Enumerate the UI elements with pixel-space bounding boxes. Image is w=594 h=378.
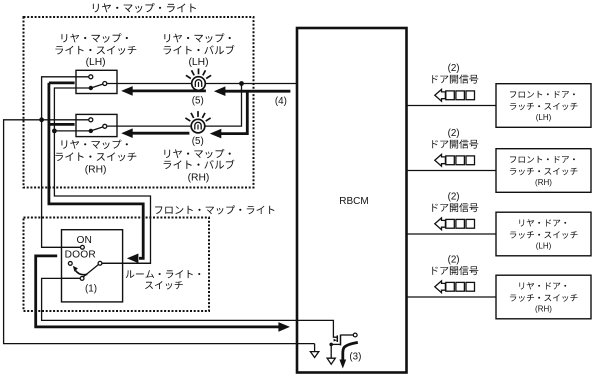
switch S3 lever <box>83 264 99 277</box>
svg-text:(LH): (LH) <box>86 57 106 68</box>
junction: ground bus node <box>39 117 44 122</box>
flow line: switches down to room light switch <box>49 83 143 258</box>
label: door open signal group 1 <box>432 75 478 84</box>
svg-text:(LH): (LH) <box>188 57 208 68</box>
switch S2 lever <box>91 126 105 131</box>
svg-text:(3): (3) <box>349 352 361 363</box>
label: room light switch <box>126 270 201 278</box>
switch S2: rear map light switch (RH) body <box>76 114 117 136</box>
lamp L2: rear map light bulb (RH) <box>191 119 205 133</box>
label: rear map light switch (RH) <box>62 140 128 149</box>
svg-text:(5): (5) <box>192 136 204 147</box>
svg-text:(RH): (RH) <box>535 178 552 187</box>
ground G1: body ground <box>310 352 318 358</box>
switch S1 common contact <box>89 86 93 90</box>
flow line: bulb RH to switch RH <box>133 132 190 135</box>
transistor Q1 source lead <box>331 343 340 345</box>
flow arrow into bulb RH <box>210 129 222 139</box>
connector symbol group 2 <box>435 154 446 166</box>
switch S1: rear map light switch (LH) body <box>76 70 117 93</box>
wire: RBCM to door latch switch 1 <box>407 105 497 107</box>
flow line: from RBCM to bulb LH (4) <box>222 90 291 93</box>
label: door open signal group 3 <box>432 203 478 212</box>
wire: room light switch pivot to RBCM (lamp control) <box>42 278 338 337</box>
flow arrow into switch LH <box>121 86 133 96</box>
transistor Q1 body arrow <box>334 339 337 342</box>
wire: switch LH top contact to ground bus <box>42 77 91 248</box>
switch S2 common contact <box>89 129 93 133</box>
label: door latch switch 4 <box>519 282 566 289</box>
terminal: Q1 drain output pin <box>353 333 357 337</box>
switch S3 ON contact <box>81 245 85 249</box>
svg-text:ON: ON <box>77 235 92 246</box>
wire: RBCM to door latch switch 4 <box>407 296 497 298</box>
svg-text:(RH): (RH) <box>188 172 210 183</box>
wire: external ground drop <box>314 344 316 352</box>
label: door latch switch 1 <box>510 91 575 98</box>
ground G2: transistor source ground <box>327 358 335 364</box>
wire: ground bus to switch RH top contact <box>42 119 91 121</box>
svg-text:(2): (2) <box>448 128 460 139</box>
flow arrow into RBCM <box>278 322 290 332</box>
switch S3 DOOR contact <box>68 262 72 266</box>
dashed enclosure: front map light assembly <box>24 218 210 312</box>
label: rear map light switch (LH) <box>62 33 128 42</box>
wire: source node to ground <box>330 344 332 358</box>
switch S1 output contact <box>103 82 107 86</box>
switch S3 output lead <box>100 262 151 264</box>
label: door latch switch 2 <box>510 156 575 163</box>
flow arrow to ground (3) <box>339 360 346 369</box>
transistor Q1 channel bar <box>340 335 342 346</box>
switch S3: room light switch body <box>62 230 123 302</box>
switch S2 output contact <box>103 124 107 128</box>
svg-text:(1): (1) <box>85 284 97 295</box>
flow stub out of switch RH <box>48 123 74 126</box>
switch box: door latch switch 1 <box>496 84 591 128</box>
connector symbol group 1 <box>435 89 446 101</box>
switch S3 pivot lead <box>62 277 83 279</box>
label: door open signal group 2 <box>432 140 478 149</box>
dashed enclosure: rear map light assembly <box>24 17 254 188</box>
wire: feed drop to bulb RH <box>105 84 242 127</box>
svg-text:(RH): (RH) <box>535 304 552 313</box>
switch box: door latch switch 2 <box>496 149 591 193</box>
svg-text:(2): (2) <box>448 255 460 266</box>
transistor Q1 gate lead bar <box>336 335 338 342</box>
svg-text:(2): (2) <box>448 63 460 74</box>
connector symbol group 4 <box>435 281 446 293</box>
flow stub out of room light switch <box>36 256 279 327</box>
label: door open signal group 4 <box>432 266 478 275</box>
flow stub out of switch LH <box>49 82 75 85</box>
switch box: door latch switch 4 <box>496 275 591 319</box>
wire: bulb LH feed from RBCM <box>105 83 297 85</box>
label: front map light <box>155 205 274 214</box>
wire: RBCM to door latch switch 3 <box>407 233 497 235</box>
flow arrow into switch RH <box>121 128 133 138</box>
junction: feed node <box>239 81 244 86</box>
flow arrow into bulb LH <box>214 86 226 96</box>
svg-text:(2): (2) <box>448 192 460 203</box>
label: rear map light (title) <box>93 3 196 13</box>
transistor Q1 drain lead <box>341 334 354 336</box>
label: door latch switch 3 <box>519 219 566 226</box>
switch S2 top contact <box>89 118 93 122</box>
wire: ground bus left branch <box>4 120 315 344</box>
flow line: bulb LH to switch LH <box>133 90 206 93</box>
label: rear map light bulb (RH) <box>164 149 230 158</box>
wire: switch LH common down <box>54 88 150 263</box>
wire: switch RH common branch <box>54 130 90 132</box>
switch S3 pivot contact <box>80 277 84 281</box>
switch box: door latch switch 3 <box>496 212 591 256</box>
junction: source-ground node <box>329 343 333 347</box>
svg-text:(LH): (LH) <box>536 241 552 250</box>
junction: switch commons node <box>52 129 57 134</box>
wire: RBCM to door latch switch 2 <box>407 170 497 172</box>
flow arrow into room light switch <box>127 254 138 264</box>
switch S3 output contact <box>98 261 102 265</box>
svg-text:(RH): (RH) <box>85 164 107 175</box>
lamp L1: rear map light bulb (LH) <box>192 77 206 91</box>
connector symbol group 3 <box>435 218 446 230</box>
svg-text:RBCM: RBCM <box>339 196 368 207</box>
flow branch down to bulb RH <box>218 91 247 133</box>
svg-text:(4): (4) <box>275 96 287 107</box>
svg-text:(LH): (LH) <box>536 113 552 122</box>
svg-text:DOOR: DOOR <box>65 250 96 261</box>
label: rear map light bulb (LH) <box>164 33 230 42</box>
svg-text:(5): (5) <box>192 95 204 106</box>
module U1: RBCM body <box>297 28 407 373</box>
flow line: ground current path (3) <box>343 342 358 360</box>
switch S1 lever <box>91 84 105 89</box>
switch S3 actuation arrow <box>76 271 88 275</box>
switch S1 top contact <box>89 75 93 79</box>
